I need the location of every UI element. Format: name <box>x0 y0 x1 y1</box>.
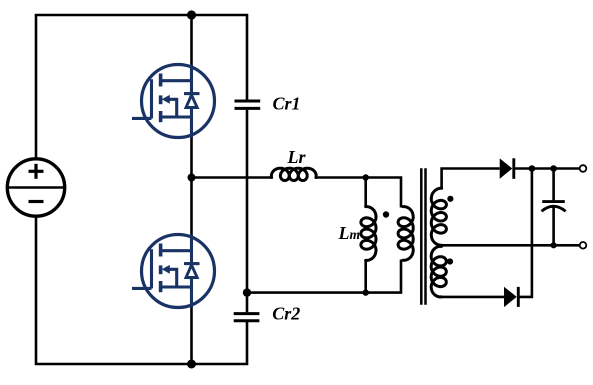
junction output cap bottom <box>551 242 557 248</box>
wire top rail <box>36 15 247 159</box>
transistor Q1 <box>132 65 215 138</box>
junction rectifier link <box>529 165 536 172</box>
wire Lm top lead <box>364 178 367 208</box>
inductor Lr <box>271 168 316 180</box>
polarity dot secondary lower <box>447 258 453 264</box>
transformer T1 secondary winding lower <box>431 246 446 297</box>
wire left rail lower <box>36 216 247 364</box>
capacitor Cr2 <box>234 314 260 321</box>
wire D2 cathode link <box>519 169 532 297</box>
inductor Lm <box>361 207 376 261</box>
diode D1 <box>500 158 514 179</box>
wire bridge vertical <box>190 15 193 364</box>
junction Lm top <box>363 174 369 180</box>
junction Lm bottom <box>363 289 369 295</box>
wire center tap rail <box>442 244 580 247</box>
transistor Q2 <box>132 235 215 308</box>
wire primary bottom lead <box>247 260 401 293</box>
wire output cap branch <box>552 169 555 201</box>
svg-text:Cr1: Cr1 <box>273 94 301 114</box>
capacitor Cr1 <box>235 101 261 108</box>
wire D2 anode rail <box>442 296 505 299</box>
junction bridge top <box>187 10 196 19</box>
svg-text:Cr2: Cr2 <box>272 304 300 324</box>
junction bridge bottom <box>187 360 196 369</box>
polarity dot secondary upper <box>447 196 453 202</box>
wire D1 cathode to terminal <box>514 167 580 170</box>
wire Lm bottom lead <box>364 260 367 293</box>
transformer T1 core <box>421 168 425 305</box>
wire Lr to transformer <box>315 178 401 208</box>
voltage source Vin <box>7 159 64 216</box>
junction output cap top <box>550 165 557 172</box>
diode D2 <box>504 287 518 307</box>
wire Cr middle branch <box>246 110 249 312</box>
terminal output negative <box>580 242 587 249</box>
terminal output positive <box>580 165 587 172</box>
transformer T1 secondary winding upper <box>431 188 446 245</box>
transformer T1 primary winding <box>398 207 413 261</box>
capacitor Co <box>542 202 566 212</box>
wire secondary top rail <box>442 169 500 190</box>
svg-text:Lr: Lr <box>287 147 307 167</box>
wire midpoint to Lr <box>192 176 273 179</box>
junction bridge midpoint <box>188 174 196 182</box>
junction Cr2 top <box>243 288 251 296</box>
polarity dot primary <box>383 211 389 217</box>
